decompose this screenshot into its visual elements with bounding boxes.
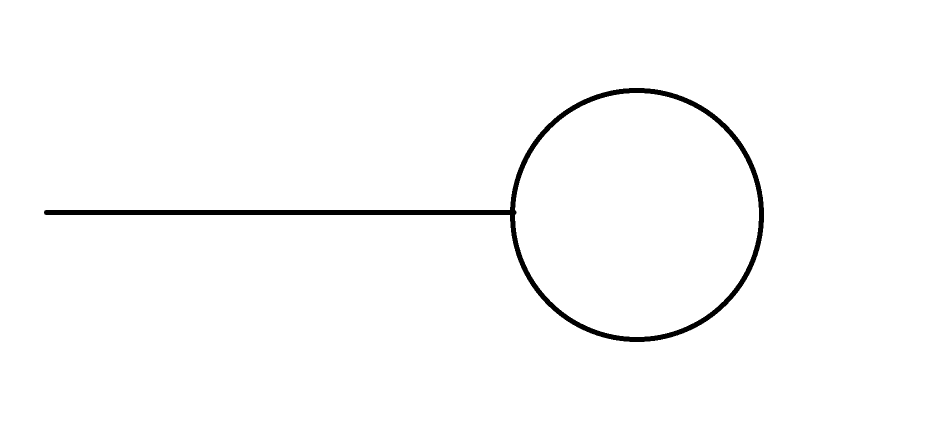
wire [47, 210, 515, 215]
node (circle) [513, 91, 762, 340]
